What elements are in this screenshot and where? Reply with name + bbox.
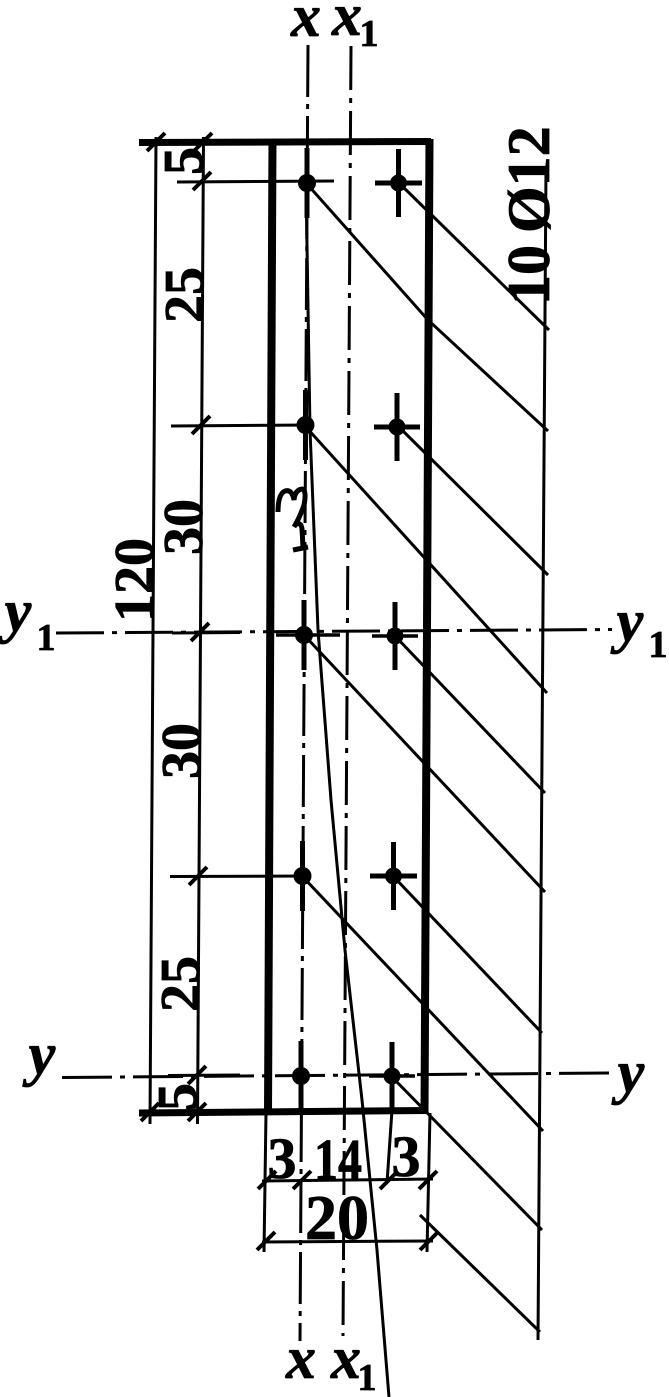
svg-text:5: 5 [147,1083,209,1111]
rebar L5 [292,1041,310,1111]
tick line row5 (y=1075) [168,1074,240,1078]
hatch line H2 from bar L1 [307,184,548,431]
svg-text:10 Ø12: 10 Ø12 [496,126,562,305]
svg-text:1: 1 [360,13,379,55]
svg-text:x: x [331,0,362,48]
hatch line H7 from bar L3 [304,635,545,892]
svg-text:25: 25 [154,267,216,323]
bottom extension line: right bar column [387,1110,392,1183]
rebar L1 [298,148,316,218]
slash tick on B at row3 [191,623,209,641]
slash tick on A at bottom [141,1103,159,1121]
rebar R4 [370,842,417,910]
dimension line B (segment dims) [198,137,204,1124]
svg-text:3: 3 [268,1126,297,1191]
hatch line H10 from bar R5 [392,1077,542,1230]
svg-text:1: 1 [37,617,56,659]
svg-text:y: y [0,578,32,644]
svg-text:x: x [290,0,321,49]
svg-text:120: 120 [104,538,166,622]
bottom dimension line (3 14 3) [262,1179,433,1181]
y1 axis (dash-dot horizontal) [56,630,612,634]
hatch line H4 from bar R2 [399,427,548,575]
bottom dimension line (20) [262,1241,433,1242]
svg-text:30: 30 [151,723,213,779]
hatch line H8 from bar R4 [393,876,542,1033]
section outline: bottom edge (extends left to dimension lines) [139,1111,428,1114]
tick line row4 (y=876) [170,875,308,879]
dimension line A (overall 120) [150,137,156,1124]
section outline: right edge [425,139,430,1114]
slash tick 3-14-3 at x axis [293,1171,311,1189]
svg-text:3: 3 [392,1124,421,1189]
slash tick on B at row2 [192,416,210,434]
slash tick on A at top [147,133,165,151]
tick line row1 (y=181) [177,181,334,182]
slash tick on B at row1 [193,172,211,190]
rebar R1 [375,149,422,217]
section outline: left edge [268,139,273,1114]
slash tick on B at bottom edge [188,1103,206,1121]
hatch line H5 from bar L2 [305,426,547,693]
tick line row3 (y=632) [172,631,240,635]
hatch line H9 from bar L4 [302,876,543,1131]
hatch line H1 from bar R1 [399,183,549,330]
svg-text:x: x [285,1325,316,1391]
rebar L4 [294,841,312,911]
rebar R2 [374,393,420,461]
tilted reference curve [306,184,389,1397]
y axis (dash-dot horizontal) [62,1073,612,1078]
slash tick 20 at right [420,1232,438,1250]
slash tick 3-14-3 at right edge [419,1171,437,1189]
x1 axis (dash-dot vertical) [343,46,351,1336]
hatch line H6 from bar R3 [395,636,545,793]
svg-text:5: 5 [153,147,215,175]
rebar L3 [276,600,340,670]
svg-text:1: 1 [649,624,668,666]
slash tick 20 at left [257,1232,275,1250]
bottom extension line: left edge [264,1113,266,1252]
section outline: top edge (extends left to dimension lines) [139,142,431,143]
handwritten x1 mark [278,489,305,527]
rebar R3 [372,602,418,670]
tick line row2 (y=425) [171,425,312,426]
x axis (dash-dot vertical through left bar column) [300,45,308,1341]
hatch line H11 [420,1215,540,1332]
slash tick on B at top edge [194,133,212,151]
svg-text:x: x [330,1325,361,1391]
slash tick 3-14-3 at right bar column [380,1171,398,1189]
slash tick on B at row5 [188,1066,206,1084]
svg-text:1: 1 [358,1357,377,1397]
rebar L2 [297,390,315,460]
bottom extension line: right edge [427,1113,430,1252]
slash tick 3-14-3 at left edge [258,1171,276,1189]
hatch break line (right boundary) [538,168,546,1340]
svg-text:25: 25 [150,956,212,1012]
rebar R5 [369,1042,415,1110]
svg-text:20: 20 [305,1182,369,1253]
slash tick on B at row4 [189,867,207,885]
